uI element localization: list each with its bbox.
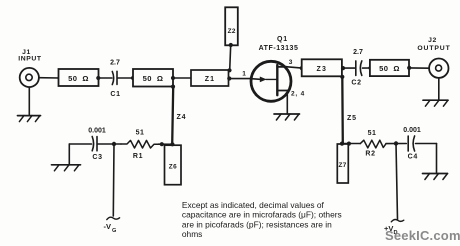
connector J1 bbox=[18, 49, 42, 87]
svg-text:51: 51 bbox=[368, 130, 377, 137]
ground (J1) bbox=[18, 87, 41, 122]
junction at input line bbox=[57, 76, 61, 80]
ground (C4) bbox=[423, 174, 448, 180]
junction bbox=[96, 76, 100, 80]
svg-text:50 Ω: 50 Ω bbox=[379, 64, 400, 73]
svg-text:C3: C3 bbox=[92, 154, 102, 161]
wire Z3 to C2 bbox=[343, 67, 355, 69]
svg-text:50 Ω: 50 Ω bbox=[143, 74, 164, 83]
svg-text:ATF-13135: ATF-13135 bbox=[259, 45, 299, 52]
wire R1 to Z6 node bbox=[158, 143, 174, 145]
svg-text:50 Ω: 50 Ω bbox=[68, 74, 89, 83]
capacitor C3 bbox=[88, 128, 106, 162]
50 ohm line (second) bbox=[133, 69, 173, 87]
resistor R1 bbox=[121, 130, 158, 161]
wire C3 branch horizontal bbox=[69, 143, 91, 145]
svg-text:C4: C4 bbox=[408, 154, 418, 161]
supply +VD bbox=[384, 144, 404, 236]
svg-text:Z2: Z2 bbox=[228, 28, 236, 35]
junction bbox=[368, 66, 372, 70]
stub Z1 bbox=[191, 70, 229, 86]
svg-text:Z1: Z1 bbox=[205, 76, 216, 83]
svg-text:Z7: Z7 bbox=[338, 162, 346, 169]
svg-text:0.001: 0.001 bbox=[403, 127, 421, 134]
svg-text:SeekIC.com: SeekIC.com bbox=[385, 228, 460, 243]
svg-text:Z4: Z4 bbox=[177, 114, 187, 121]
junction at Z7 top bbox=[340, 142, 344, 146]
svg-text:Q1: Q1 bbox=[277, 36, 288, 43]
svg-text:Except as indicated, decimal v: Except as indicated, decimal values of bbox=[182, 200, 325, 210]
svg-text:R1: R1 bbox=[133, 153, 143, 160]
svg-text:C1: C1 bbox=[110, 91, 120, 98]
junction bbox=[171, 85, 175, 89]
junction bbox=[160, 142, 164, 146]
wire Z4 (series stub) bbox=[172, 87, 186, 144]
svg-text:Z5: Z5 bbox=[347, 115, 357, 122]
wire C1 to second line bbox=[118, 77, 134, 79]
svg-text:1: 1 bbox=[242, 71, 246, 78]
wire drain to Z3 bbox=[287, 67, 302, 68]
junction bbox=[227, 76, 231, 80]
junction bbox=[171, 76, 175, 80]
svg-text:R2: R2 bbox=[365, 151, 375, 158]
capacitor C4 bbox=[403, 127, 421, 161]
wire C2 to output line bbox=[363, 67, 372, 69]
wire gate node to Q1 bbox=[229, 78, 250, 80]
junction bbox=[170, 142, 174, 146]
svg-text:ohms: ohms bbox=[182, 229, 202, 239]
svg-text:2.7: 2.7 bbox=[353, 49, 363, 56]
wire to Z1 bbox=[173, 77, 192, 79]
svg-text:51: 51 bbox=[136, 130, 145, 137]
svg-text:capacitance are in microfarads: capacitance are in microfarads (μF); oth… bbox=[182, 210, 342, 220]
svg-text:G: G bbox=[112, 228, 116, 234]
junction bbox=[394, 141, 398, 145]
junction bbox=[341, 66, 345, 70]
wire C3 branch down bbox=[68, 144, 70, 165]
capacitor C1 bbox=[110, 60, 121, 99]
wire Z7 node to R2 bbox=[342, 143, 360, 145]
junction bbox=[347, 142, 351, 146]
stub Z7 bbox=[337, 144, 348, 183]
wire C3 to junction bbox=[98, 143, 121, 145]
resistor R2 bbox=[360, 130, 386, 158]
junction bbox=[340, 75, 344, 79]
svg-text:Z6: Z6 bbox=[169, 164, 177, 171]
stub Z6 bbox=[165, 145, 182, 185]
junction bbox=[131, 76, 135, 80]
svg-text:J2: J2 bbox=[428, 37, 437, 44]
wire R2 to C4 bbox=[386, 143, 406, 145]
svg-text:C2: C2 bbox=[351, 79, 361, 86]
wire to J2 bbox=[409, 67, 429, 69]
stub Z3 bbox=[302, 59, 342, 76]
note text bbox=[182, 200, 342, 239]
wire Z5 (series stub) bbox=[342, 77, 357, 144]
supply -VG bbox=[104, 144, 120, 234]
svg-text:2.7: 2.7 bbox=[110, 60, 120, 67]
connector J2 bbox=[417, 37, 450, 78]
junction bbox=[112, 142, 116, 146]
50 ohm line (output) bbox=[370, 60, 409, 76]
ground (J2) bbox=[423, 78, 448, 106]
junction bbox=[407, 66, 411, 70]
stub Z2 bbox=[225, 7, 238, 45]
wire J1 to input line bbox=[39, 77, 60, 79]
svg-text:0.001: 0.001 bbox=[88, 128, 106, 135]
capacitor C2 bbox=[351, 49, 363, 86]
junction at Z2 bottom bbox=[229, 43, 233, 47]
junction bbox=[227, 68, 231, 72]
svg-text:INPUT: INPUT bbox=[18, 56, 42, 63]
svg-text:2, 4: 2, 4 bbox=[291, 91, 305, 98]
50 ohm line (input) bbox=[59, 69, 99, 86]
svg-text:are in picofarads (pF); resist: are in picofarads (pF); resistances are … bbox=[182, 220, 332, 230]
wire C4 to ground bbox=[416, 144, 437, 174]
svg-text:3: 3 bbox=[289, 59, 293, 66]
transistor Q1 bbox=[250, 36, 298, 101]
wire Z2 to gate node bbox=[230, 45, 231, 70]
wire source to ground bbox=[286, 91, 288, 115]
svg-text:Z3: Z3 bbox=[317, 66, 328, 73]
wire to C1 bbox=[99, 77, 112, 79]
ground (C3) bbox=[52, 165, 81, 171]
svg-text:-V: -V bbox=[104, 222, 112, 231]
junction bbox=[300, 66, 304, 70]
svg-text:OUTPUT: OUTPUT bbox=[417, 45, 450, 52]
ground (Q1 source) bbox=[274, 114, 300, 120]
